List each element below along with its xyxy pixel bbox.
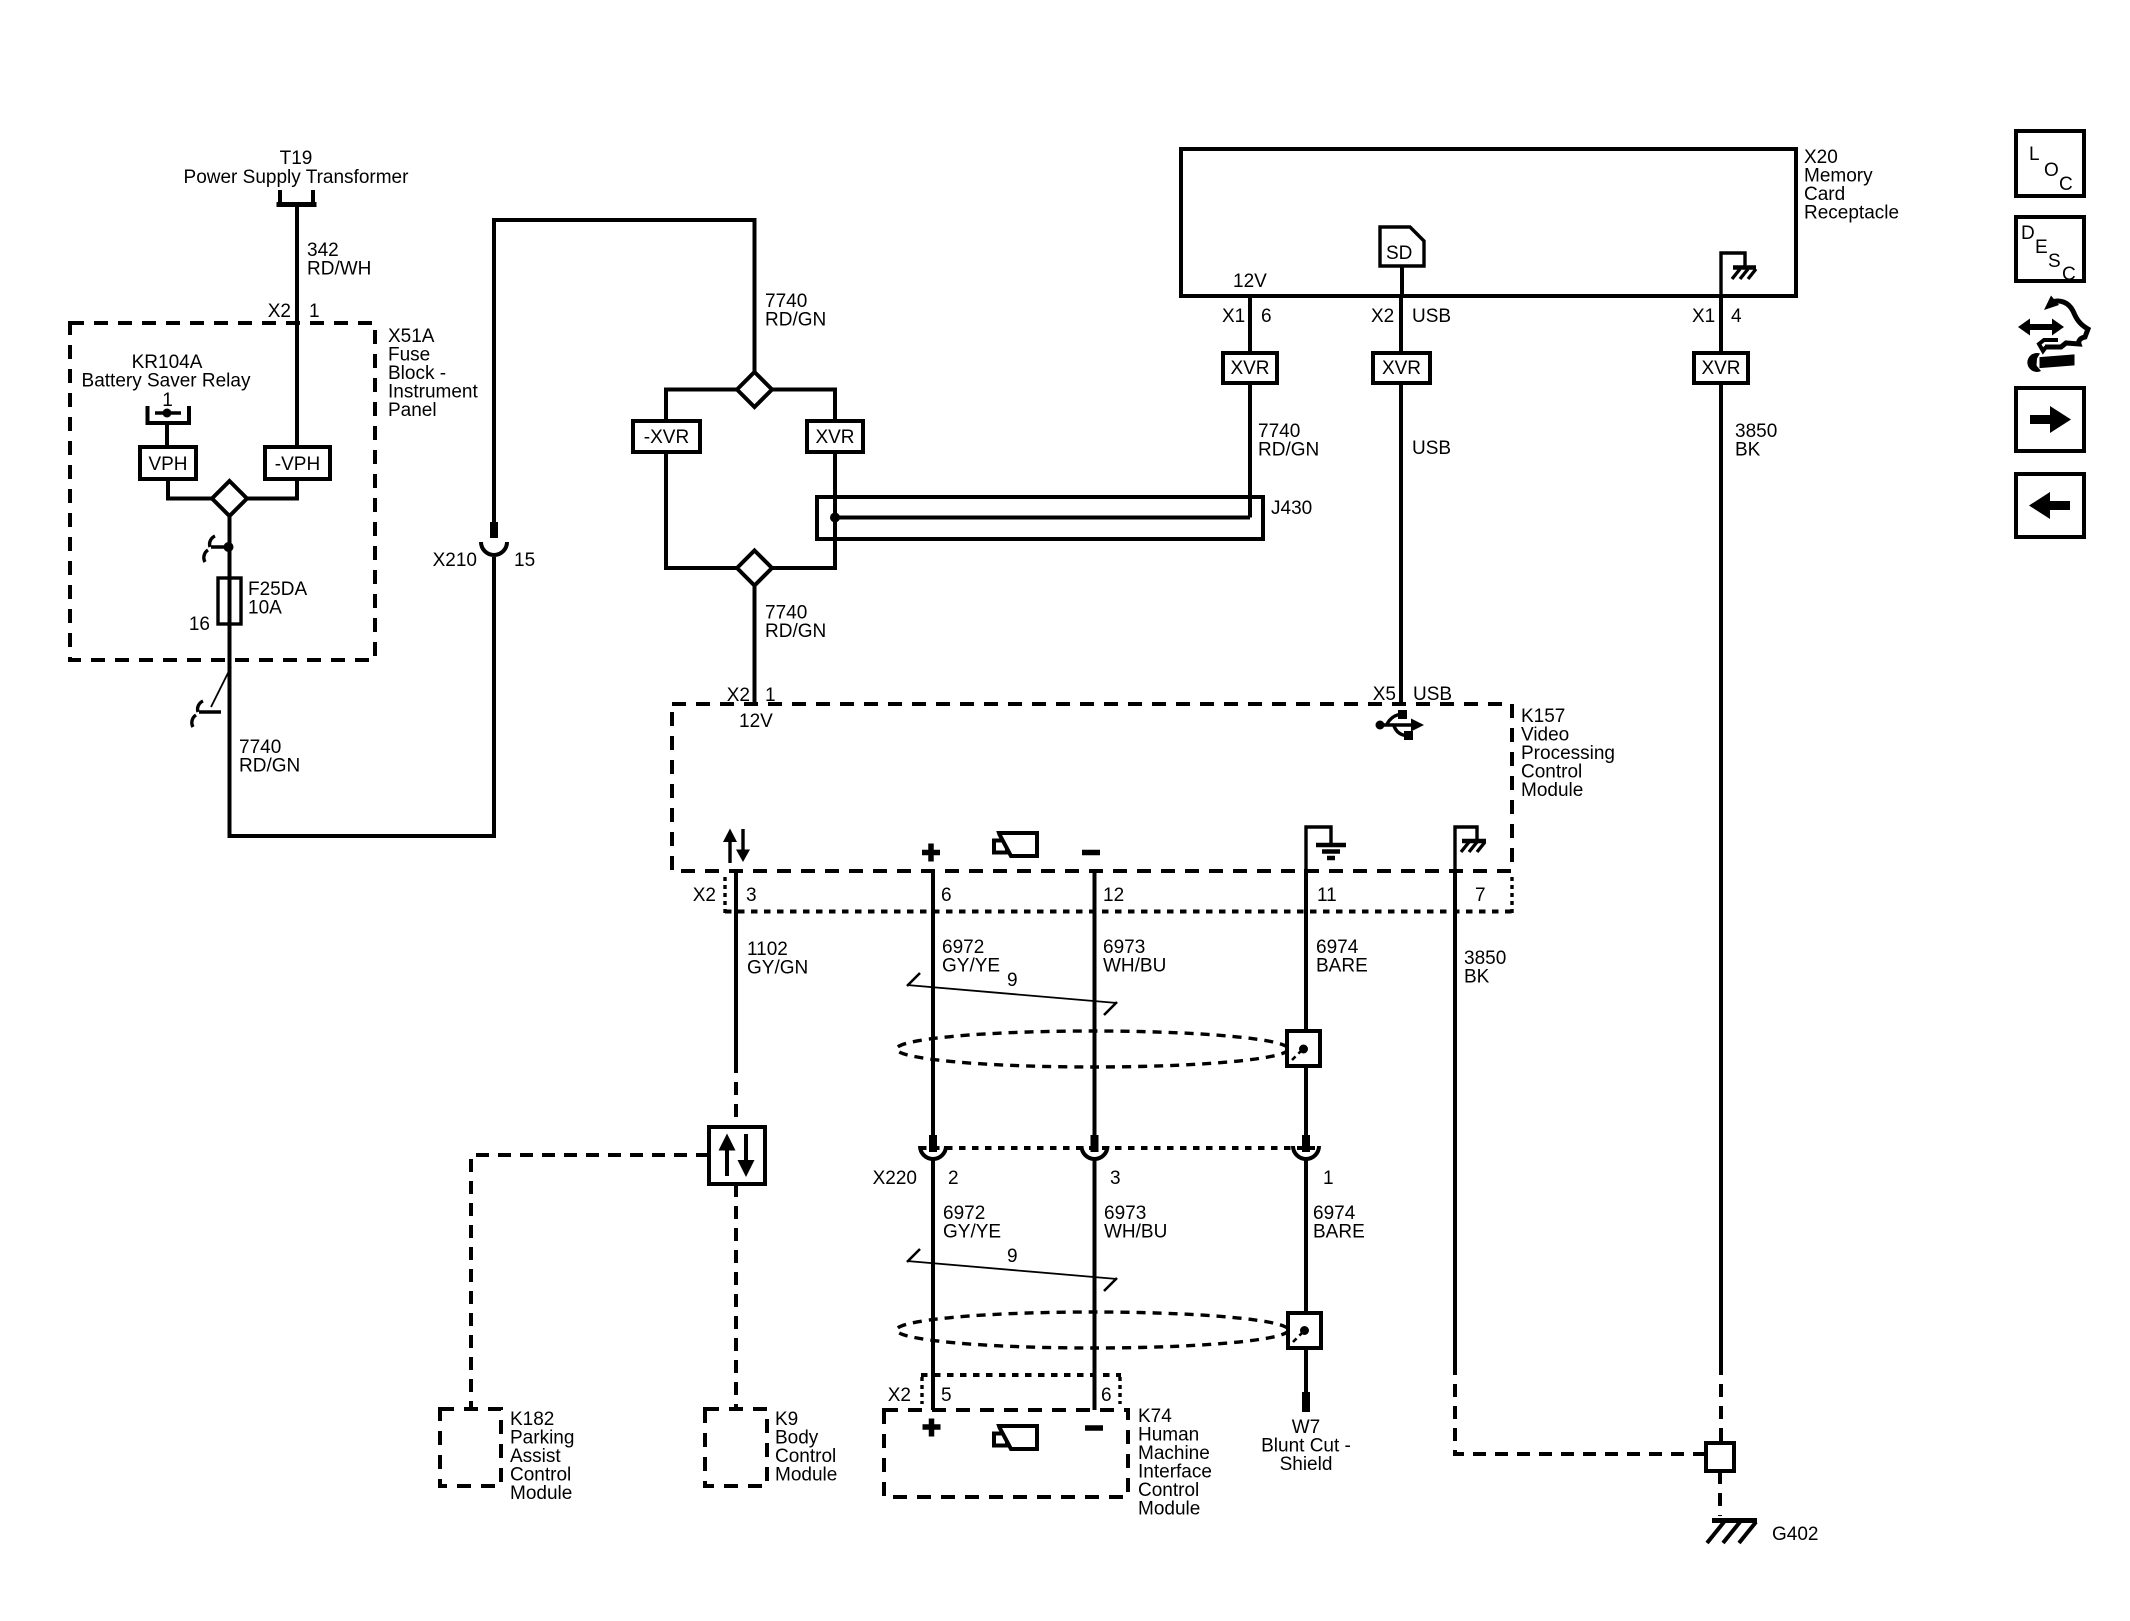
wire label 6974 BARE upper <box>1316 937 1368 977</box>
svg-text:Module: Module <box>510 1483 572 1504</box>
svg-text:9: 9 <box>1007 970 1018 991</box>
svg-text:X2: X2 <box>1371 306 1394 327</box>
dashed wire 3850 BK from X20 down <box>1719 1362 1723 1443</box>
svg-text:O: O <box>2044 160 2059 181</box>
plus symbol inside K74 <box>923 1419 941 1437</box>
dashed wire 3850 BK from K157 pin 7 to splice <box>1455 1362 1706 1454</box>
wire K157 pin 3 serial data <box>734 869 738 1060</box>
wire label 7740 RD/GN right <box>1258 421 1319 461</box>
splice pack J430 <box>817 497 1312 539</box>
earth ground symbol inside K157 pin 11 <box>1306 827 1346 869</box>
svg-text:10A: 10A <box>248 598 282 619</box>
svg-text:G402: G402 <box>1772 1524 1818 1545</box>
legend LOC button <box>2016 131 2084 196</box>
svg-text:1: 1 <box>309 301 320 322</box>
svg-text:3: 3 <box>746 885 757 906</box>
svg-text:3: 3 <box>1110 1168 1121 1189</box>
transformer T19 winding terminal symbol <box>277 190 317 205</box>
module K9 label <box>775 1409 837 1486</box>
wire label 6974 BARE lower <box>1313 1203 1365 1243</box>
svg-text:WH/BU: WH/BU <box>1104 1222 1167 1243</box>
svg-text:15: 15 <box>514 550 535 571</box>
svg-text:RD/WH: RD/WH <box>307 259 371 280</box>
svg-text:XVR: XVR <box>1701 358 1740 379</box>
svg-text:E: E <box>2035 237 2048 258</box>
svg-text:Battery Saver Relay: Battery Saver Relay <box>82 371 251 392</box>
twisted pair ellipse upper <box>897 1031 1289 1067</box>
svg-text:SD: SD <box>1386 243 1412 264</box>
svg-text:S: S <box>2048 251 2061 272</box>
net -XVR box <box>633 421 700 452</box>
dashed wire 1102 to K9 <box>734 1184 738 1409</box>
svg-text:BARE: BARE <box>1313 1222 1365 1243</box>
module K157 label <box>1521 706 1615 801</box>
wire label 7740 RD/GN lower left <box>239 737 300 777</box>
connector X2 pin 1 labels at K157 <box>727 685 776 706</box>
wire X210 up and over to middle splice <box>494 220 755 522</box>
svg-text:X220: X220 <box>873 1168 917 1189</box>
twisted pair leader 9 upper <box>907 970 1117 1015</box>
svg-text:6: 6 <box>1261 306 1272 327</box>
wire K157 pin 7 3850 BK down <box>1453 869 1457 1362</box>
svg-text:L: L <box>2029 144 2040 165</box>
shield connection box lower <box>1288 1313 1321 1348</box>
net -VPH box <box>265 447 330 479</box>
svg-text:T19: T19 <box>280 148 313 169</box>
module K74 label <box>1138 1406 1212 1520</box>
svg-text:Panel: Panel <box>388 400 437 421</box>
fuse F25DA label <box>189 579 308 635</box>
wire X20 pin 6 to XVR <box>1248 296 1252 353</box>
memory card receptacle X20 label <box>1804 147 1899 224</box>
svg-text:BARE: BARE <box>1316 956 1368 977</box>
svg-text:X1: X1 <box>1222 306 1245 327</box>
svg-text:5: 5 <box>941 1385 952 1406</box>
connector X2 pin USB labels <box>1371 306 1451 327</box>
connector X210 labels <box>433 550 536 571</box>
svg-text:6: 6 <box>1101 1385 1112 1406</box>
wire label 6972 GY/YE upper <box>942 937 1000 977</box>
svg-text:7: 7 <box>1475 885 1486 906</box>
svg-text:6: 6 <box>941 885 952 906</box>
svg-text:XVR: XVR <box>1230 358 1269 379</box>
connector X2 of K157 pin line <box>725 877 1512 915</box>
svg-text:BK: BK <box>1464 967 1490 988</box>
svg-text:Shield: Shield <box>1280 1454 1333 1475</box>
wire X20 pin 4 to XVR <box>1719 296 1723 353</box>
connector X220 pin line <box>920 1146 1315 1150</box>
module K182 label <box>510 1409 574 1504</box>
connector X220 pin 1 terminal <box>1293 1135 1319 1159</box>
legend DESC button <box>2016 217 2084 285</box>
svg-text:XVR: XVR <box>1382 358 1421 379</box>
blunt cut W7 terminal <box>1302 1392 1310 1412</box>
net XVR box right column <box>1694 353 1748 383</box>
chassis ground symbol inside X20 <box>1721 253 1756 296</box>
svg-text:Receptacle: Receptacle <box>1804 203 1899 224</box>
svg-text:J430: J430 <box>1271 498 1312 519</box>
relay KR104A coil terminal symbol <box>148 406 190 423</box>
memory card receptacle X20 box <box>1181 149 1796 296</box>
fuse F25DA 10A <box>218 578 241 624</box>
transformer T19 label <box>184 148 410 188</box>
net XVR box middle column <box>1373 353 1430 383</box>
svg-text:USB: USB <box>1412 306 1451 327</box>
chassis ground symbol inside K157 pin 7 <box>1455 827 1486 869</box>
shield connection box upper <box>1287 1031 1320 1066</box>
connector X2 of K74 pin line <box>921 1375 1121 1404</box>
svg-text:Power Supply Transformer: Power Supply Transformer <box>184 167 410 188</box>
svg-text:2: 2 <box>948 1168 959 1189</box>
connector X220 pin 2 terminal <box>920 1135 946 1159</box>
module K182 dashed box <box>440 1409 501 1486</box>
wire label 7740 RD/GN above splice <box>765 291 826 331</box>
wire label 342 RD/WH <box>307 240 371 280</box>
wire splice to -XVR <box>666 390 737 422</box>
net XVR box middle <box>807 421 863 452</box>
svg-text:WH/BU: WH/BU <box>1103 956 1166 977</box>
splice diamond lower middle <box>737 551 772 586</box>
svg-text:RD/GN: RD/GN <box>1258 440 1319 461</box>
svg-text:1: 1 <box>162 390 173 411</box>
svg-text:12V: 12V <box>1233 271 1267 292</box>
svg-text:9: 9 <box>1007 1246 1018 1267</box>
junction dot <box>224 542 234 552</box>
connector X2 pin 1 of X51A <box>268 301 320 322</box>
svg-text:4: 4 <box>1731 306 1742 327</box>
legend vehicle and wrench icon <box>2018 296 2088 372</box>
wire 3850 BK down right side <box>1719 383 1723 1362</box>
svg-text:D: D <box>2021 223 2035 244</box>
wire splice to XVR <box>772 390 835 422</box>
svg-text:GY/YE: GY/YE <box>943 1222 1001 1243</box>
splice diamond upper middle <box>737 372 772 407</box>
connector X210 male terminal <box>490 522 498 538</box>
wire -XVR down to lower splice <box>666 452 737 568</box>
connector X2 of K157 labels <box>693 885 1486 906</box>
svg-text:X5: X5 <box>1373 684 1396 705</box>
wire VPH to splice diamond <box>168 479 212 499</box>
wire -VPH to splice diamond <box>247 479 297 499</box>
wire 6974 below X220 to W7 <box>1304 1159 1308 1392</box>
wire label 3850 BK lower <box>1464 948 1506 988</box>
legend next arrow button <box>2016 388 2084 451</box>
wire label 3850 BK upper <box>1735 421 1777 461</box>
svg-text:X1: X1 <box>1692 306 1715 327</box>
wire X20 pin USB to XVR <box>1399 296 1403 353</box>
relay KR104A label <box>82 352 251 411</box>
svg-text:VPH: VPH <box>148 454 187 475</box>
ground splice box <box>1706 1443 1734 1471</box>
wire K157 pin 12 to X220 <box>1093 869 1097 1135</box>
svg-text:X2: X2 <box>888 1385 911 1406</box>
connector X5 pin USB labels at K157 <box>1373 684 1452 705</box>
connector X210 pin 15 female terminal <box>481 542 507 555</box>
connector X220 labels <box>873 1168 1334 1189</box>
svg-text:11: 11 <box>1317 885 1337 906</box>
camera symbol inside K157 <box>994 833 1037 856</box>
USB trident symbol inside K157 <box>1376 710 1425 740</box>
wire 342 RD/WH <box>295 207 299 447</box>
wire K157 pin 11 shield to X220 <box>1304 869 1308 1135</box>
svg-text:Module: Module <box>775 1465 837 1486</box>
svg-text:-XVR: -XVR <box>644 427 689 448</box>
wire label 6972 GY/YE lower <box>943 1203 1001 1243</box>
module K74 dashed box <box>884 1410 1128 1497</box>
module K9 dashed box <box>705 1409 767 1486</box>
twisted pair leader 9 lower <box>907 1246 1117 1291</box>
serial data arrows symbol inside K157 <box>723 829 750 864</box>
svg-text:12V: 12V <box>739 711 773 732</box>
svg-text:X210: X210 <box>433 550 477 571</box>
minus symbol inside K157 <box>1082 850 1100 856</box>
wire K157 pin 6 to X220 <box>931 869 935 1135</box>
net XVR box left column <box>1223 353 1277 383</box>
svg-text:RD/GN: RD/GN <box>765 310 826 331</box>
wire label 1102 GY/GN <box>747 939 808 979</box>
wire 6972 below X220 <box>931 1159 935 1410</box>
svg-text:Module: Module <box>1521 780 1583 801</box>
svg-text:BK: BK <box>1735 440 1761 461</box>
svg-text:X2: X2 <box>268 301 291 322</box>
svg-text:RD/GN: RD/GN <box>239 756 300 777</box>
wire SD to X2 USB pin <box>1400 266 1404 296</box>
SD card symbol <box>1380 227 1424 266</box>
legend previous arrow button <box>2016 474 2084 537</box>
wire 6973 below X220 <box>1093 1159 1097 1410</box>
svg-text:C: C <box>2062 264 2076 285</box>
svg-text:Module: Module <box>1138 1499 1200 1520</box>
serial data arrows box on wire 1102 <box>709 1127 765 1184</box>
wire XVR down through J430 to lower splice <box>772 452 835 568</box>
fuse block X51A label <box>388 326 478 421</box>
plus symbol inside K157 <box>922 844 940 862</box>
connector X220 pin 3 terminal <box>1082 1135 1108 1159</box>
dashed branch to K182 <box>471 1155 709 1409</box>
net VPH box <box>140 447 196 479</box>
ground G402 symbol <box>1707 1521 1757 1544</box>
connector X2 of K74 labels <box>888 1385 1112 1406</box>
svg-text:-VPH: -VPH <box>275 454 320 475</box>
wire coil to VPH <box>165 425 169 447</box>
svg-text:12: 12 <box>1103 885 1124 906</box>
svg-text:USB: USB <box>1413 684 1452 705</box>
page reference hook at junction <box>204 536 228 562</box>
wire label 6973 WH/BU lower <box>1104 1203 1167 1243</box>
wire label 7740 RD/GN below splice <box>765 603 826 643</box>
wire 7740 RD/GN down to J430 <box>1248 383 1252 518</box>
svg-text:USB: USB <box>1412 438 1451 459</box>
connector X1 pin 6 labels <box>1222 306 1272 327</box>
minus symbol inside K74 <box>1085 1425 1103 1431</box>
wire splice to fuse and down to corner <box>230 516 495 836</box>
connector X1 pin 4 labels <box>1692 306 1742 327</box>
splice diamond in X51A <box>212 481 247 516</box>
page reference leader below fuse block <box>192 667 231 727</box>
dashed wire splice to G402 <box>1718 1471 1722 1516</box>
svg-text:GY/GN: GY/GN <box>747 958 808 979</box>
wire splice down to K157 X2 pin 1 <box>753 586 757 705</box>
svg-text:GY/YE: GY/YE <box>942 956 1000 977</box>
svg-text:RD/GN: RD/GN <box>765 621 826 642</box>
svg-text:C: C <box>2059 174 2073 195</box>
fuse block X51A dashed box <box>70 323 375 660</box>
svg-text:16: 16 <box>189 614 210 635</box>
dashed wire 1102 above arrows box <box>734 1060 738 1127</box>
svg-text:XVR: XVR <box>815 427 854 448</box>
camera symbol inside K74 <box>994 1426 1037 1449</box>
twisted pair ellipse lower <box>897 1312 1289 1348</box>
blunt cut W7 label <box>1261 1417 1351 1475</box>
wire USB down to K157 <box>1399 383 1403 704</box>
svg-text:1: 1 <box>1323 1168 1334 1189</box>
svg-text:X2: X2 <box>693 885 716 906</box>
module K157 dashed box <box>672 704 1512 871</box>
wire label 6973 WH/BU upper <box>1103 937 1166 977</box>
